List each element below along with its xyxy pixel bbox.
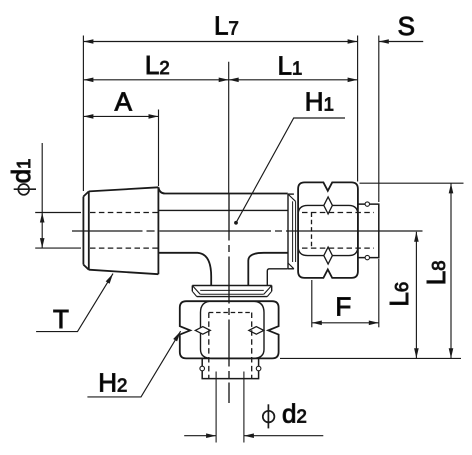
socket circle right (256, 366, 261, 371)
dimension L2 (83, 62, 228, 194)
dimension phi-d1 (35, 143, 81, 248)
dimension L7 (83, 36, 357, 192)
label H2 leader (87, 331, 180, 397)
nut H1 diamond bottom (324, 247, 333, 264)
nut H1 diamond top (324, 197, 333, 214)
flange washer H2 side (192, 286, 271, 297)
nut H1 outline (298, 182, 358, 278)
dimension F (312, 259, 379, 328)
nut H2 outline (180, 301, 279, 358)
male thread T outline (83, 187, 158, 274)
dimension L6 (415, 232, 417, 358)
stub circle bottom (365, 255, 369, 259)
label T leader (36, 274, 113, 332)
tube stub right (358, 204, 379, 258)
nut H2 diamond right (249, 327, 264, 335)
centerline vertical branch axis (228, 194, 230, 404)
body top edge with fillet from thread crest (158, 187, 287, 193)
branch right wall + fillet to body bottom right (248, 253, 287, 286)
svg-text:T: T (53, 304, 69, 334)
label H1 leader (236, 118, 345, 223)
tube hole edges below socket (215, 372, 217, 443)
nut H1 hidden bore dashed (302, 212, 374, 214)
centerline horizontal axis (72, 230, 423, 232)
phi-d1 label (18, 184, 29, 195)
svg-text:S: S (398, 11, 415, 41)
dimension S (379, 36, 423, 203)
dimension L1 (229, 79, 358, 81)
svg-text:F: F (335, 291, 351, 321)
phi-d2 label (263, 411, 275, 423)
stub circle top (365, 202, 369, 206)
dimension phi-d2 (184, 435, 323, 437)
svg-text:A: A (115, 87, 133, 117)
nut H2 diamond left (195, 327, 210, 335)
thread hidden minor-diameter dashed lines (90, 212, 158, 214)
body bore silhouette top line (158, 209, 287, 211)
dimension L8 (280, 183, 464, 358)
bottom socket (202, 358, 258, 378)
flange washer H1 side (288, 194, 296, 269)
dimension A (83, 110, 158, 187)
block corner right of branch (267, 269, 288, 286)
nut H1 barrel facet (298, 205, 358, 255)
body outline (158, 187, 287, 285)
body bottom left + fillet into branch (158, 253, 211, 286)
socket circle left (200, 366, 205, 371)
nut H2 barrel facet (201, 301, 265, 358)
nut H2 hidden bore dashed (208, 313, 210, 379)
